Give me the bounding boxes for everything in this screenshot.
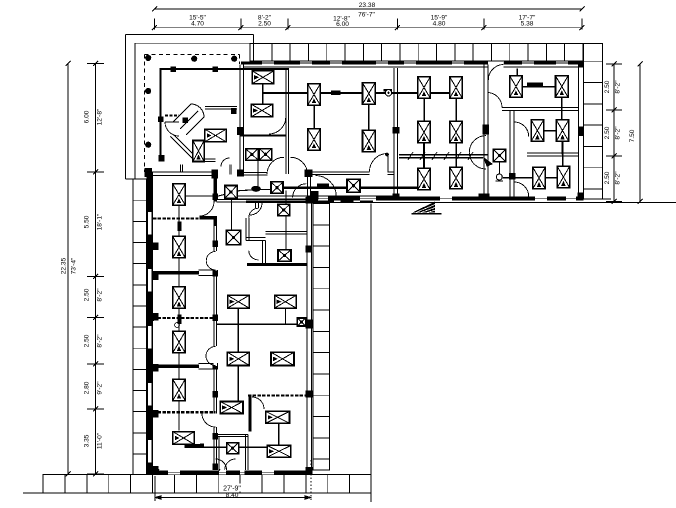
hatched sidewalk band bottom (23, 475, 371, 494)
svg-text:6.00: 6.00 (84, 110, 91, 123)
vestibule door arc (269, 117, 286, 134)
upper wing bottom exterior wall (307, 194, 584, 201)
left dim text 2.50 at 341 (84, 334, 104, 348)
left dim text 6.00 at 117 (84, 108, 104, 125)
svg-text:22.35: 22.35 (61, 257, 68, 274)
storage drop connector (257, 160, 259, 188)
exam room circuit mid (537, 131, 562, 166)
reception wall blocks (158, 67, 237, 162)
fixture F40 (220, 402, 243, 414)
fixture F22 (225, 186, 238, 199)
svg-text:5.50: 5.50 (84, 215, 91, 228)
right overall dimension (629, 62, 643, 205)
patient room door arc 2 (206, 251, 217, 271)
patient room door arc 1 (200, 202, 217, 217)
svg-text:2.80: 2.80 (84, 381, 91, 394)
fixture F13 (510, 76, 523, 98)
left dim text 3.35 at 441 (84, 432, 104, 449)
fixture F7 (418, 77, 431, 99)
corridor fixture drop (231, 199, 233, 231)
svg-text:2.50: 2.50 (84, 334, 91, 347)
svg-text:2.50: 2.50 (604, 126, 611, 139)
fixture F37 (275, 295, 297, 308)
treatment circuit (285, 191, 287, 250)
left wing column circuit (178, 195, 182, 431)
fixture F17 (533, 167, 546, 189)
fixture F26 (259, 149, 272, 161)
left wing corridor west wall (213, 179, 219, 471)
waiting room divider wall (240, 134, 286, 136)
hall right wall (393, 68, 400, 196)
svg-text:8.40: 8.40 (226, 492, 239, 499)
fixture F41 (266, 411, 290, 423)
patient room divider dotted 1 (153, 216, 217, 220)
hall bottom wall (308, 172, 395, 175)
fixture F11 (450, 121, 463, 142)
left wing bottom exterior wall (147, 470, 312, 476)
hatched sidewalk band top (250, 44, 603, 62)
right segment dimension line (606, 62, 622, 205)
svg-text:9'-2": 9'-2" (97, 381, 104, 395)
svg-text:2.50: 2.50 (258, 21, 271, 28)
svg-text:4.80: 4.80 (433, 21, 446, 28)
svg-text:8'-2": 8'-2" (615, 126, 622, 140)
svg-text:7.50: 7.50 (629, 129, 636, 142)
waiting room fixture connector (262, 83, 264, 105)
corner panel symbol (317, 184, 329, 188)
dim text 17-7 (519, 15, 536, 28)
hall fan connectors (314, 104, 369, 131)
svg-text:8'-2": 8'-2" (615, 171, 622, 185)
fixture F44 (297, 318, 305, 326)
left segment dimension line (87, 61, 104, 476)
fixture F2 (251, 104, 273, 117)
treatment corridor door arc (293, 184, 307, 198)
office col2 connectors (455, 99, 457, 168)
waiting room west wall (237, 65, 244, 177)
fixture F32 (173, 432, 195, 445)
reception room walls (160, 69, 290, 162)
break room circuit (278, 423, 280, 445)
vestibule wall (286, 68, 289, 174)
fixture F31 (173, 379, 186, 401)
fixture F28 (173, 236, 186, 258)
patient room door arc 3 (206, 346, 217, 366)
svg-text:6.00: 6.00 (336, 21, 349, 28)
fixture F14 (556, 76, 569, 98)
left dim text 2.80 at 388 (84, 381, 104, 395)
svg-text:18'-1": 18'-1" (97, 213, 104, 230)
exam top room fixture drop (516, 69, 518, 76)
dim text 15-9 (431, 15, 448, 28)
fixture F8 (418, 121, 431, 142)
svg-text:23.38: 23.38 (359, 2, 376, 9)
site boundary vertical line (370, 204, 372, 503)
fixture F21 (271, 182, 283, 194)
fixture F12 (450, 167, 463, 189)
exam door arc 2 (514, 182, 529, 197)
reception door jamb stub (181, 165, 183, 173)
courtyard edge line lower (246, 201, 676, 203)
corridor circuit line (186, 186, 425, 196)
porch outer boundary step lines (125, 34, 253, 179)
patient room divider solid 2 (153, 363, 215, 369)
svg-text:4.70: 4.70 (191, 21, 204, 28)
left dim text 2.50 at 295 (84, 288, 104, 302)
patient room divider dotted 3 (153, 411, 216, 413)
left wing east wall upper (307, 171, 310, 200)
treatment room 1 door stub (256, 201, 259, 208)
fixture F35 (278, 250, 291, 262)
svg-text:8'-2": 8'-2" (97, 334, 104, 348)
ceiling fan F6 (363, 130, 376, 152)
top overall dimension (152, 2, 585, 11)
entrance ramp (412, 202, 442, 214)
fixture F15 (531, 120, 544, 142)
fixture F34 (278, 204, 290, 216)
patient room divider solid 1 (153, 270, 215, 276)
exam door arc 1 (514, 122, 529, 137)
ceiling fan F5 (363, 83, 376, 105)
office circuit v1 (237, 308, 239, 401)
double door arcs office corridor (469, 136, 486, 169)
right dim text 2.50 at 178 (604, 171, 622, 185)
corridor exit door arc (250, 203, 262, 215)
svg-text:8'-2": 8'-2" (615, 80, 622, 94)
svg-text:2.50: 2.50 (604, 80, 611, 93)
corner wall block (311, 191, 319, 200)
double door arcs hall entry (267, 157, 308, 174)
fixture F39 (271, 352, 294, 365)
office circuit v2 (284, 308, 286, 324)
left wing east wall (306, 197, 313, 475)
exam top room door arc (488, 93, 502, 108)
hatched sidewalk band left (133, 179, 147, 475)
svg-text:76'-7": 76'-7" (358, 12, 375, 19)
hall lighting circuit (263, 89, 457, 96)
reception door arc (165, 122, 179, 136)
fixture F25 (246, 149, 259, 161)
wing entry door arc (221, 158, 230, 166)
treatment room 2 door arc (249, 250, 259, 260)
fixture F1 (252, 71, 274, 84)
bottom dimension (155, 460, 311, 501)
dim text 12-8 (333, 16, 350, 28)
courtyard edge line upper (399, 198, 612, 200)
floor outlet symbol (496, 162, 504, 182)
fixture F38 (227, 352, 249, 365)
fixture F10 (450, 77, 463, 99)
dim text 15-5 (189, 15, 206, 28)
exam room circuit bottom (503, 177, 563, 179)
upper wing top exterior wall (241, 61, 584, 67)
north entry door arc (488, 65, 503, 81)
svg-text:8'-2": 8'-2" (97, 288, 104, 302)
dim text 76-7 (358, 12, 375, 19)
porch dashed outline (145, 54, 240, 172)
exam room wall horizontal 2 (527, 153, 579, 156)
hatched sidewalk band right (584, 44, 603, 200)
svg-text:2.50: 2.50 (604, 171, 611, 184)
break room dotted wall (248, 394, 307, 396)
wing entry door stub (229, 165, 231, 175)
ceiling fan F4 (308, 129, 321, 151)
svg-text:3.35: 3.35 (84, 434, 91, 447)
fixture F19 (493, 149, 506, 162)
ceiling fan F3 (308, 84, 321, 106)
exam room circuit top (516, 82, 562, 119)
fixture F27 (173, 184, 186, 206)
office east wall (483, 65, 490, 200)
exam room wall horizontal 1 (502, 108, 579, 111)
toilet door arcs (216, 459, 236, 470)
fixture F43 (227, 443, 239, 454)
office col1 connectors (423, 99, 425, 169)
upper wing right exterior wall (578, 61, 585, 199)
left wing west exterior wall (147, 172, 159, 474)
svg-text:12'-8": 12'-8" (97, 108, 104, 125)
fixture F16 (556, 120, 569, 142)
right dim text 2.50 at 133 (604, 126, 622, 140)
reception south wall (145, 168, 219, 178)
break room west wall (249, 396, 252, 432)
right dim text 2.50 at 87 (604, 80, 622, 94)
treatment room south wall (247, 263, 307, 266)
svg-text:73'-4": 73'-4" (71, 257, 78, 274)
fixture F42 (267, 445, 291, 457)
fixture F33 (226, 230, 241, 245)
corridor cased opening west (237, 170, 312, 178)
corner exterior door arc (316, 176, 337, 197)
reception dashed note (165, 115, 179, 117)
exam rooms vertical wall (509, 111, 516, 198)
patient room door arc 4 (202, 414, 217, 428)
treatment jog wall (246, 218, 265, 264)
reception desk (173, 104, 237, 135)
svg-text:2.50: 2.50 (84, 288, 91, 301)
corridor-south room top wall (216, 200, 306, 203)
fixture F9 (418, 168, 431, 190)
office circuit h2 (185, 444, 268, 449)
porch columns (145, 55, 237, 176)
hall door arc (370, 153, 389, 172)
corridor south wall (230, 196, 398, 198)
fixture F36 (228, 295, 250, 308)
left overall dimension (61, 61, 78, 476)
fixture F23 (205, 129, 227, 142)
treatment room 1 door arc (249, 208, 259, 218)
office circuit h1 (217, 323, 298, 325)
feeder conduit symbol (399, 152, 492, 166)
dim text 8-2 (258, 15, 272, 28)
fixture F18 (557, 166, 570, 188)
top segment dimension line (152, 19, 585, 31)
left dim text 5.50 at 222 (84, 213, 104, 230)
fixture F30 (173, 331, 186, 353)
hatched sidewalk band inner-right (313, 204, 330, 471)
patient room divider dotted 2 (153, 314, 215, 327)
fixture F20 (347, 179, 360, 192)
fixture F24 (193, 141, 205, 162)
left wing circuit to corridor (179, 195, 186, 197)
treatment room divider wall (265, 232, 306, 235)
svg-text:11'-0": 11'-0" (97, 432, 104, 449)
break room door arc (252, 397, 264, 409)
fixture F29 (173, 287, 186, 309)
svg-text:5.38: 5.38 (521, 21, 534, 28)
toilet room walls (216, 434, 248, 470)
